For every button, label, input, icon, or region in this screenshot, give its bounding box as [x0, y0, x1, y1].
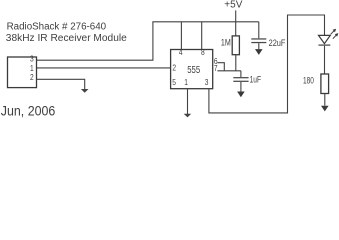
svg-text:5: 5 [172, 78, 176, 87]
svg-text:2: 2 [172, 63, 176, 72]
svg-text:1uF: 1uF [250, 75, 262, 86]
wire: 555 pin3 output loop to LED anode [209, 15, 325, 113]
svg-text:180: 180 [303, 76, 314, 87]
wire: C2 to ground [240, 82, 242, 92]
svg-text:38kHz IR Receiver Module: 38kHz IR Receiver Module [6, 33, 127, 44]
wire: LED cathode to R2 [324, 46, 326, 74]
resistor R2 180 [321, 74, 329, 94]
ground (arrow style) at 555 pin1 [184, 114, 192, 118]
svg-text:RadioShack # 276-640: RadioShack # 276-640 [7, 21, 107, 32]
svg-text:7: 7 [214, 64, 218, 73]
wire: 555 pin6 jog to pin7 net [217, 63, 224, 71]
svg-text:2: 2 [30, 73, 34, 82]
resistor R1 1M [232, 36, 239, 55]
svg-text:8: 8 [201, 48, 205, 57]
LED emission arrow 2 [333, 35, 337, 39]
svg-text:4: 4 [179, 48, 183, 57]
wire: 555 pin8 to rail [201, 22, 203, 50]
wire: 555 pin1 to ground [187, 89, 189, 114]
ground (arrow style) at module pin2 [81, 89, 89, 93]
ground (triangle) under R2 [321, 106, 329, 112]
svg-text:+5V: +5V [224, 0, 242, 11]
555 timer U1 box [171, 50, 213, 89]
svg-text:1: 1 [30, 64, 34, 73]
wire: 555 pin7 net to R1/C2 junction [217, 70, 241, 72]
svg-text:3: 3 [30, 55, 34, 64]
wire: +5V rail [152, 21, 258, 23]
LED D1 triangle [319, 35, 331, 43]
wire: R2 to ground [324, 94, 326, 106]
svg-text:555: 555 [187, 65, 200, 76]
wire: C1 to ground [258, 43, 260, 49]
wire: rail down to C1 [258, 22, 260, 39]
ground (triangle) under C1 [255, 49, 263, 55]
wire: module pin2 to ground [37, 79, 85, 89]
wire: module pin3 up to +5V rail [37, 22, 153, 60]
svg-text:Jun, 2006: Jun, 2006 [1, 104, 56, 119]
svg-text:22uF: 22uF [269, 38, 286, 49]
IR module U2 box [8, 57, 37, 88]
LED emission arrow 1 [331, 31, 335, 35]
wire: module pin1 to 555 pin2 [37, 67, 171, 69]
capacitor C2 1uF [233, 77, 248, 79]
ground (triangle) under C2 [237, 92, 245, 98]
svg-text:1: 1 [184, 78, 188, 87]
svg-text:1M: 1M [221, 38, 231, 49]
LED D1 cathode bar [319, 44, 331, 46]
node +5V lead [235, 10, 237, 36]
svg-text:3: 3 [205, 78, 209, 87]
wire: R1 bottom to pin7 net [235, 55, 237, 71]
wire: 555 pin4 to rail [180, 22, 182, 50]
capacitor C1 22uF [251, 38, 266, 40]
wire: junction down to C2 [240, 71, 242, 77]
